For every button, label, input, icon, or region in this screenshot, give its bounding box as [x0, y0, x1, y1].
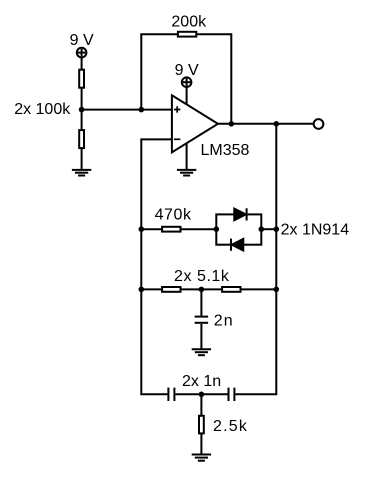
junction: 5.1k midpoint	[199, 287, 205, 293]
wire - input to left rail down to caps row	[141, 139, 172, 394]
wire diode box to right rail	[261, 228, 276, 230]
junction: right rail / 5.1k row	[274, 287, 280, 293]
ground (left divider)	[72, 170, 91, 176]
wire R2 to ground	[81, 147, 83, 170]
supply V2 9V (op-amp)	[182, 77, 192, 87]
wire between C2 and C3	[175, 393, 227, 395]
junction: + input / feedback node	[139, 107, 145, 113]
junction: diode box right	[259, 226, 265, 232]
ground (C1)	[192, 349, 211, 355]
junction: caps midpoint	[199, 392, 205, 398]
svg-text:2x 1n: 2x 1n	[182, 373, 221, 390]
junction: output / right rail	[274, 121, 280, 127]
wire op-amp V- pin to ground	[186, 144, 188, 170]
svg-text:2n: 2n	[214, 313, 234, 330]
wire R1 through divider node to R2	[81, 88, 83, 131]
op-amp U1 LM358	[172, 95, 218, 152]
wire 5.1k midpoint to C1	[200, 289, 202, 315]
wire 470k row	[141, 228, 216, 230]
svg-text:470k: 470k	[155, 207, 192, 224]
junction: feedback / output	[229, 121, 235, 127]
wire caps midpoint to R7	[200, 394, 202, 416]
resistor R6 5.1k (right)	[222, 287, 240, 292]
diode D2 1N914 (bottom, anode right)	[231, 239, 243, 251]
svg-text:200k: 200k	[171, 13, 207, 30]
wire V1 to R1	[81, 58, 83, 71]
diode D1 1N914 (top, anode left)	[234, 208, 246, 220]
resistor R1 100k (upper half of 2x 100k)	[79, 70, 84, 88]
resistor R5 5.1k (left)	[162, 287, 180, 292]
supply V1 9V (left)	[77, 48, 87, 58]
svg-text:2x 100k: 2x 100k	[14, 101, 71, 118]
svg-text:2x 1N914: 2x 1N914	[281, 221, 350, 238]
ground (op-amp)	[177, 170, 196, 176]
resistor R4 470k	[162, 227, 180, 232]
junction: left rail / 470k row	[139, 226, 145, 232]
wire right rail from output to caps row	[235, 124, 276, 395]
junction: left rail / 5.1k row	[139, 287, 145, 293]
wire V2 to op-amp V+ pin	[186, 88, 188, 105]
wire divider node to op-amp + input	[82, 109, 172, 111]
resistor R7 2.5k	[199, 416, 204, 434]
ground (bottom)	[192, 455, 211, 461]
wire feedback drop to output	[230, 33, 232, 124]
wire feedback top run	[140, 33, 231, 35]
capacitor C1 2n	[195, 317, 209, 323]
resistor R3 200k (feedback)	[178, 32, 196, 37]
junction: diode box left	[214, 226, 220, 232]
svg-text:9 V: 9 V	[70, 32, 94, 49]
terminal: output port	[314, 119, 324, 129]
svg-text:2x 5.1k: 2x 5.1k	[174, 268, 230, 285]
capacitor C2 1n (left)	[168, 388, 174, 401]
wire op-amp output	[218, 123, 314, 125]
wire 5.1k row	[141, 288, 276, 290]
capacitor C3 1n (right)	[229, 388, 235, 401]
svg-text:LM358: LM358	[201, 142, 250, 159]
resistor R2 100k (lower half of 2x 100k)	[79, 130, 84, 148]
wire + input node feedback riser	[140, 34, 142, 109]
svg-text:2.5k: 2.5k	[213, 418, 248, 435]
wire diode loop box	[216, 214, 261, 244]
junction: divider node	[79, 107, 85, 113]
svg-text:9 V: 9 V	[175, 62, 199, 79]
junction: right rail / diode row	[274, 226, 280, 232]
wire R7 to ground	[200, 433, 202, 454]
wire C1 to ground	[200, 324, 202, 349]
